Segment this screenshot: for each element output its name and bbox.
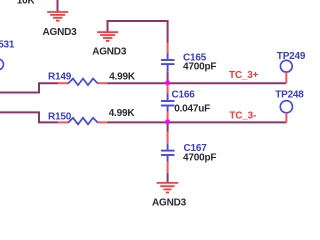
wire from junction to C167: [167, 124, 169, 132]
junction node row 2: [165, 119, 170, 124]
capacitor C165 body: [161, 53, 175, 72]
wire row 1 (net TC_3+): [107, 82, 286, 84]
ground AGND3 (top-left) stem wire: [57, 0, 59, 12]
svg-text:TP248: TP248: [275, 90, 304, 101]
wire feed row 2 from left edge: [0, 112, 58, 122]
svg-text:AGND3: AGND3: [152, 198, 187, 209]
wire row 2 (net TC_3-): [107, 121, 286, 123]
junction node row 1: [165, 80, 170, 85]
test point circle TP531 (clipped at left edge): [0, 59, 4, 70]
resistor R149 zigzag: [68, 79, 98, 86]
resistor R150 zigzag: [68, 118, 98, 125]
capacitor C166 bottom pin: [167, 112, 169, 121]
svg-text:AGND3: AGND3: [43, 27, 78, 38]
svg-text:4700pF: 4700pF: [183, 152, 216, 163]
test point TP249 pin: [285, 72, 287, 83]
resistor R149 left pin: [58, 82, 68, 84]
resistor R149 right pin: [98, 82, 107, 84]
test point circle TP249: [280, 60, 292, 72]
wire stub to bottom ground: [167, 173, 169, 182]
capacitor C167 bottom pin: [167, 162, 169, 174]
svg-text:4700pF: 4700pF: [183, 61, 216, 72]
svg-text:0.047uF: 0.047uF: [174, 104, 210, 115]
test point circle TP248: [280, 101, 292, 113]
ground AGND3 (top-left) bars: [47, 12, 68, 21]
svg-text:TP531: TP531: [0, 40, 15, 51]
capacitor C167 top pin: [167, 132, 169, 144]
svg-text:10K: 10K: [17, 0, 36, 7]
svg-text:AGND3: AGND3: [92, 47, 127, 58]
test point TP248 pin: [285, 113, 287, 123]
wire from middle ground to capacitor chain: [108, 21, 168, 43]
svg-text:4.99K: 4.99K: [109, 108, 136, 119]
svg-text:R149: R149: [48, 71, 72, 82]
capacitor C166 body: [161, 94, 175, 112]
svg-text:C166: C166: [172, 90, 196, 101]
resistor R150 left pin: [58, 121, 68, 123]
capacitor C167 body: [161, 144, 175, 162]
ground AGND3 (bottom) bars: [157, 183, 179, 193]
svg-text:TC_3-: TC_3-: [229, 111, 256, 122]
wire from C165 to junction: [167, 72, 169, 81]
capacitor C166 top pin: [167, 85, 169, 94]
wire feed row 1 from left edge: [0, 83, 58, 92]
svg-text:R150: R150: [48, 111, 72, 122]
svg-text:TC_3+: TC_3+: [229, 70, 259, 81]
svg-text:TP249: TP249: [277, 51, 306, 62]
resistor R150 right pin: [98, 121, 107, 123]
ground AGND3 (middle) bars: [97, 32, 118, 41]
svg-text:4.99K: 4.99K: [109, 72, 136, 83]
capacitor C165 top pin: [167, 43, 169, 54]
